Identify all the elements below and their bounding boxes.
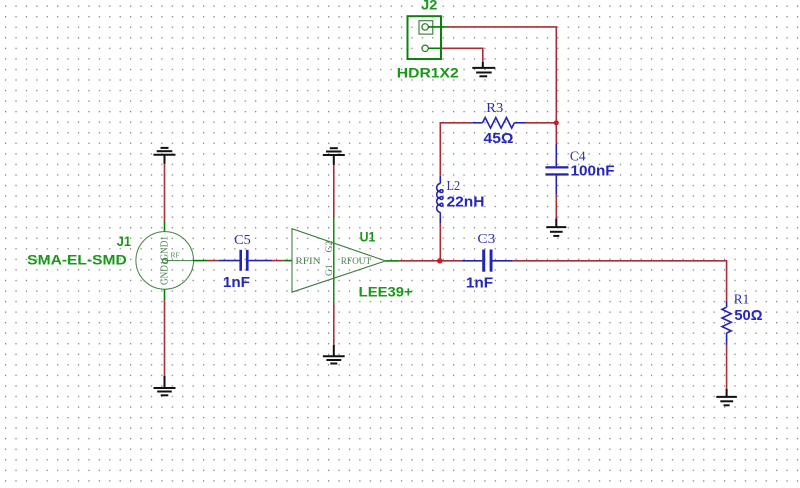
U1 output green stub [386, 260, 400, 262]
svg-text:RF: RF [171, 250, 180, 259]
svg-text:45Ω: 45Ω [484, 130, 514, 147]
svg-text:LEE39+: LEE39+ [359, 283, 413, 299]
wire red J2 pin1 to C4 column [449, 27, 557, 123]
ground below J1 [154, 376, 176, 395]
J1 pin 1 stub green [164, 221, 166, 232]
resistor R1 [722, 302, 731, 345]
ground at J2 [472, 62, 495, 76]
svg-text:R1: R1 [734, 292, 750, 307]
capacitor C4 [545, 144, 568, 195]
svg-text:C4: C4 [570, 148, 586, 163]
svg-text:RFIN: RFIN [295, 257, 320, 267]
svg-text:1nF: 1nF [223, 274, 250, 291]
J2 pin 1 square pad [419, 21, 433, 34]
wire green stub into U1 [283, 260, 292, 262]
wire red J2 pin2 to ground [441, 48, 483, 62]
svg-text:50Ω: 50Ω [734, 307, 762, 324]
J2 pin 1 stub green [428, 26, 448, 28]
node junction dot [437, 258, 442, 263]
svg-text:G1: G1 [325, 264, 335, 276]
wire red R3 row left [440, 122, 473, 124]
U1 supply pin green vertical [333, 218, 335, 303]
J1 center pad [163, 258, 168, 263]
wire red C3 to R1 corner [513, 261, 727, 302]
connector J2 box [408, 16, 442, 59]
connector J1 circle [136, 232, 194, 290]
J2 pin 2 circle [422, 45, 428, 51]
resistor R3 [472, 118, 525, 129]
wire red segment [208, 260, 219, 262]
svg-text:1nF: 1nF [466, 274, 493, 291]
ground above J1 [154, 148, 176, 164]
svg-text:22nH: 22nH [447, 194, 485, 211]
op-amp U1 triangle [292, 229, 386, 293]
svg-text:G2: G2 [325, 241, 335, 253]
wire U1 bottom red [333, 303, 335, 345]
wire red C4 to ground [555, 195, 557, 219]
ground below U1 [323, 345, 345, 364]
capacitor C5 [219, 250, 272, 271]
wire red U1 out to C3 [400, 260, 462, 262]
svg-text:J2: J2 [421, 0, 437, 13]
wire red R3 to junction [526, 122, 557, 124]
J1 RF pin line [165, 260, 196, 262]
wire red C4 column [555, 123, 557, 144]
ground below R1 [716, 389, 737, 405]
ground below C4 [546, 219, 566, 236]
svg-text:HDR1X2: HDR1X2 [397, 65, 459, 81]
capacitor C3 [462, 250, 513, 272]
J1 pin 2 stub green [164, 289, 166, 300]
J2 pin 2 stub green [428, 47, 441, 49]
svg-text:C5: C5 [234, 232, 251, 247]
inductor L2 [437, 176, 443, 224]
svg-text:100nF: 100nF [571, 163, 615, 180]
wire J1 top red [164, 164, 166, 221]
svg-text:U1: U1 [360, 229, 376, 245]
ground above U1 [323, 148, 345, 165]
wire U1 top red [333, 165, 335, 218]
node junction dot [554, 120, 559, 125]
wire red segment [272, 260, 283, 262]
wire red L2 to junction [439, 224, 441, 261]
wire red R1 to ground [726, 345, 728, 389]
svg-text:L2: L2 [447, 178, 461, 193]
J2 pin 1 circle [422, 24, 428, 30]
svg-text:RFOUT: RFOUT [341, 257, 372, 267]
wire red L2 branch vertical top [439, 123, 441, 176]
svg-text:C3: C3 [477, 231, 495, 246]
svg-text:J1: J1 [117, 233, 131, 249]
svg-text:SMA-EL-SMD: SMA-EL-SMD [27, 252, 127, 268]
wire J1 to C5 green stub [193, 260, 207, 262]
svg-text:R3: R3 [486, 100, 503, 115]
wire J1 bottom red [164, 300, 166, 376]
